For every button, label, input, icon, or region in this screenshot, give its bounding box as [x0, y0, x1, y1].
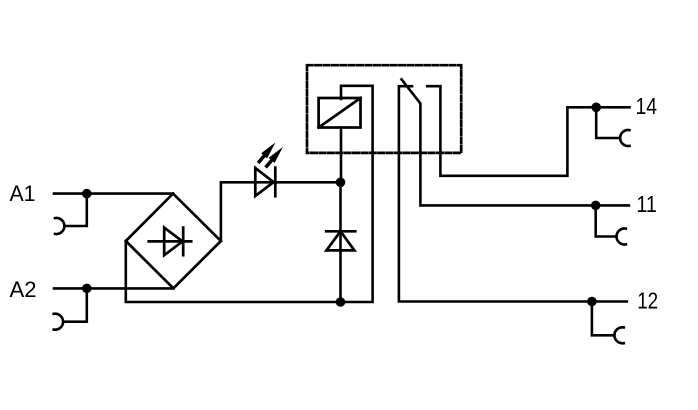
bridge rectifier BR1 inner diode triangle: [164, 228, 182, 256]
clamp terminal A2: [54, 314, 63, 330]
relay contact NO fixed contact (to 14): [427, 86, 629, 176]
bridge rectifier BR1 inner diode line: [149, 240, 191, 243]
wire 12 clamp stub: [592, 302, 615, 336]
LED D1 emission arrow 2: [267, 147, 283, 166]
clamp terminal 14: [620, 130, 629, 146]
relay contact movable blade (common, to 11): [402, 79, 596, 205]
svg-text:14: 14: [636, 93, 658, 119]
relay contact NC fixed contact (to 12): [399, 86, 592, 301]
LED D1 cathode bar: [274, 168, 277, 197]
node A2 junction: [82, 284, 92, 294]
wire coil bottom lead: [340, 128, 343, 183]
node terminal 12 junction: [587, 297, 597, 307]
wire A2 to bridge bottom vertex: [54, 287, 173, 290]
wire A1 to bridge top vertex: [54, 192, 173, 195]
wire 14 clamp stub: [596, 107, 620, 138]
node LED cathode junction: [336, 178, 346, 188]
wire blade to terminal 11 tail: [596, 204, 629, 207]
svg-text:A2: A2: [10, 277, 37, 302]
relay coil K1 box: [319, 98, 361, 128]
relay coil K1 diagonal: [319, 98, 361, 128]
wire A1 clamp stub: [64, 194, 86, 226]
clamp terminal A1: [55, 218, 64, 234]
LED D1 triangle: [255, 168, 273, 196]
wire bridge DC- bottom rail to coil top lead: [126, 86, 373, 302]
relay K1 dashed enclosure: [307, 65, 461, 153]
node bottom rail junction: [336, 297, 346, 307]
freewheeling diode D2 cathode bar: [326, 230, 355, 233]
svg-text:11: 11: [636, 191, 657, 217]
wire bridge DC+ to LED row: [221, 182, 341, 241]
node A1 junction: [82, 189, 92, 199]
node terminal 11 junction: [591, 201, 601, 211]
LED D1 emission arrow 1: [259, 142, 275, 161]
wire 12 tail: [592, 300, 627, 303]
bridge rectifier BR1 inner diode cathode bar: [182, 228, 185, 256]
freewheeling diode D2 triangle: [326, 231, 354, 250]
wire 11 clamp stub: [596, 205, 617, 236]
svg-text:12: 12: [637, 288, 658, 314]
bridge rectifier BR1 outline: [126, 194, 221, 289]
node terminal 14 junction: [591, 103, 601, 113]
clamp terminal 12: [614, 327, 623, 343]
wire junction down to bottom rail (through freewheeling diode): [339, 182, 342, 302]
svg-text:A1: A1: [10, 181, 36, 206]
clamp terminal 11: [617, 228, 626, 244]
wire A2 clamp stub: [63, 288, 87, 321]
